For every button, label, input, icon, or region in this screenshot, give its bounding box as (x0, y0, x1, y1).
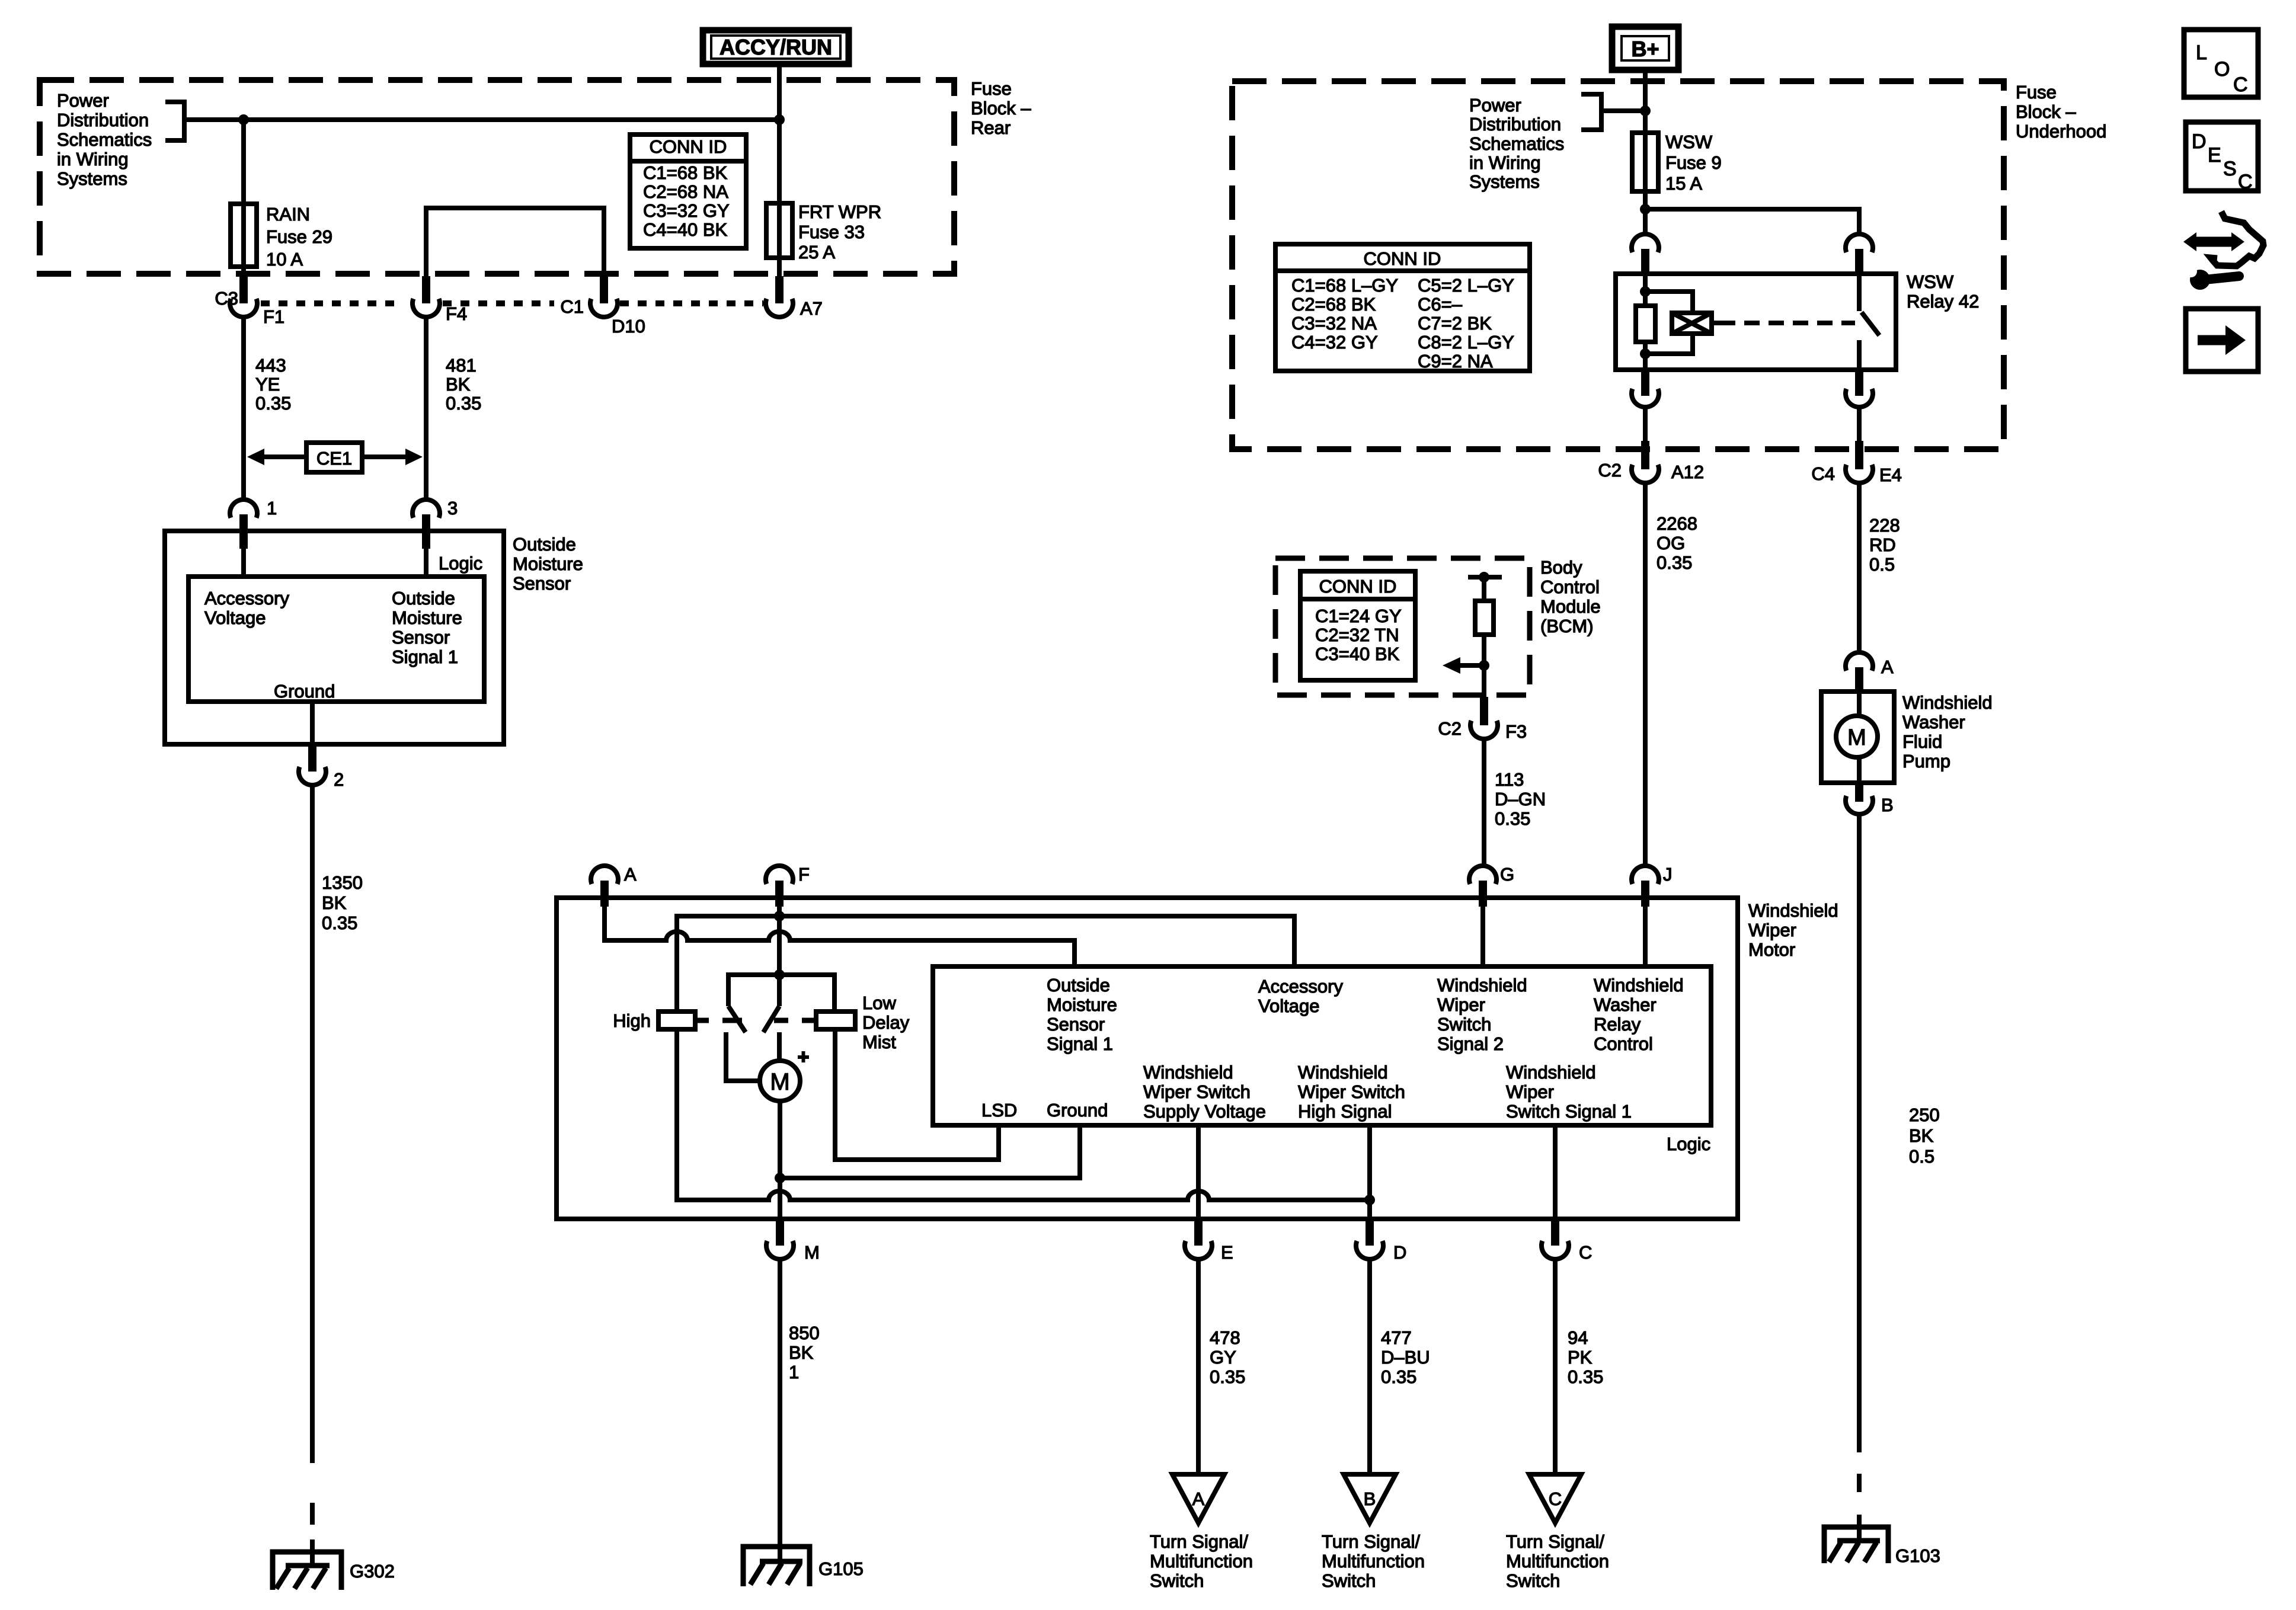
B+ box (1612, 27, 1678, 70)
label Power Distribution Schematics (left) (57, 90, 152, 189)
svg-text:WSW: WSW (1665, 132, 1713, 152)
wire motor output (778, 1101, 782, 1220)
connector A7 (766, 276, 823, 319)
svg-text:Sensor: Sensor (1047, 1014, 1105, 1035)
svg-text:A: A (1192, 1489, 1205, 1509)
svg-text:PK: PK (1568, 1347, 1593, 1368)
bracket left power distribution (165, 102, 184, 140)
svg-text:Distribution: Distribution (1469, 114, 1561, 135)
svg-text:C: C (2233, 73, 2248, 96)
label RAIN Fuse 29 10 A (266, 204, 332, 270)
svg-text:Turn Signal/: Turn Signal/ (1150, 1531, 1248, 1552)
label 2268 OG 0.35 (1657, 513, 1697, 573)
svg-text:Voltage: Voltage (1258, 996, 1319, 1016)
relay coil wire top (1643, 274, 1648, 306)
svg-text:D–BU: D–BU (1381, 1347, 1430, 1368)
svg-text:D–GN: D–GN (1495, 789, 1546, 809)
relay coil resistor (1636, 306, 1655, 342)
connector motor pin A (591, 864, 637, 907)
wire pump ground stub (1857, 1515, 1862, 1542)
svg-text:Signal 2: Signal 2 (1437, 1033, 1504, 1054)
svg-text:Windshield: Windshield (1748, 900, 1838, 921)
label Turn Signal Multifunction Switch C (1506, 1531, 1609, 1591)
label 481 BK 0.35 left (446, 355, 481, 414)
svg-text:C2=32 TN: C2=32 TN (1315, 625, 1399, 645)
svg-text:B: B (1364, 1489, 1376, 1509)
svg-text:0.5: 0.5 (1909, 1146, 1934, 1167)
svg-text:Multifunction: Multifunction (1322, 1551, 1425, 1571)
svg-text:Body: Body (1540, 557, 1582, 578)
svg-text:Underhood: Underhood (2016, 121, 2106, 142)
svg-text:C3: C3 (215, 288, 238, 309)
wire 1350 BK ground run (310, 786, 315, 1463)
svg-text:BK: BK (446, 374, 471, 395)
svg-text:Signal 1: Signal 1 (1047, 1033, 1113, 1054)
svg-text:C2=68 NA: C2=68 NA (643, 181, 728, 202)
wire supply voltage pin to E (1196, 1125, 1201, 1220)
svg-text:Moisture: Moisture (513, 553, 583, 574)
svg-text:Systems: Systems (1469, 171, 1540, 192)
connector motor pin M (766, 1220, 820, 1263)
label Body Control Module BCM (1540, 557, 1601, 636)
svg-text:Control: Control (1540, 577, 1600, 597)
svg-text:E: E (1221, 1242, 1233, 1263)
ground G302 (273, 1552, 395, 1590)
wire high brush to switch signal with hops (677, 1029, 1370, 1200)
svg-text:Distribution: Distribution (57, 110, 149, 130)
node F feed junction (774, 911, 785, 921)
svg-text:G: G (1500, 864, 1514, 885)
connector C2/A12 (1598, 441, 1704, 483)
wire jumper F4 to D10 (426, 208, 604, 277)
svg-text:Switch: Switch (1506, 1570, 1560, 1591)
wire pump ground gap dash (1857, 1474, 1862, 1492)
label 850 BK 1 (789, 1323, 820, 1382)
svg-text:C: C (1579, 1242, 1592, 1263)
connector pin 3 (412, 498, 458, 549)
wire main feed horizontal (184, 117, 779, 122)
svg-text:Module: Module (1540, 596, 1601, 617)
connector motor pin F (766, 864, 810, 907)
svg-text:0.35: 0.35 (1657, 552, 1692, 573)
BCM internal pullup wire (1468, 572, 1502, 601)
svg-text:C1=24 GY: C1=24 GY (1315, 606, 1402, 626)
logic box motor (933, 966, 1711, 1125)
wire G to switch signal 2 pin (1480, 900, 1485, 966)
wire coil to solenoid bottom (1645, 334, 1693, 354)
wire 481 BK to sensor (424, 318, 428, 500)
svg-text:Fuse 29: Fuse 29 (266, 226, 332, 247)
windshield washer fluid pump box (1821, 692, 1894, 784)
svg-text:Switch: Switch (1437, 1014, 1491, 1035)
CONN ID box underhood (1275, 244, 1530, 372)
connector pump A (1846, 652, 1894, 693)
svg-text:M: M (1847, 725, 1866, 750)
ground G103 (1824, 1527, 1940, 1566)
svg-text:0.35: 0.35 (255, 393, 291, 414)
svg-text:Schematics: Schematics (1469, 133, 1564, 154)
svg-text:Ground: Ground (274, 681, 335, 702)
label Windshield Washer Fluid Pump (1902, 692, 1993, 772)
wire accy run vertical (777, 64, 782, 277)
svg-text:Power: Power (57, 90, 109, 111)
off-page triangle A (1172, 1474, 1224, 1523)
svg-text:B: B (1881, 795, 1894, 815)
svg-text:Sensor: Sensor (392, 627, 450, 648)
node junction accy run (774, 114, 785, 125)
relay solenoid crossed box (1672, 313, 1720, 334)
connector pin 2 (299, 745, 344, 790)
node relay coil bottom junction (1640, 348, 1651, 359)
svg-text:1: 1 (789, 1362, 799, 1382)
svg-text:B+: B+ (1631, 37, 1659, 61)
svg-text:Delay: Delay (862, 1012, 910, 1033)
svg-text:Switch: Switch (1150, 1570, 1204, 1591)
connector motor pin D (1356, 1220, 1406, 1263)
svg-text:Pump: Pump (1902, 751, 1950, 772)
svg-text:in Wiring: in Wiring (57, 149, 129, 169)
fuse block underhood dashed box (1232, 81, 2004, 449)
connector C3/F1 (215, 276, 284, 327)
svg-text:Washer: Washer (1594, 994, 1657, 1015)
svg-text:ACCY/RUN: ACCY/RUN (720, 35, 832, 59)
label Outside Moisture Sensor Signal 1 logic (1047, 975, 1117, 1054)
svg-text:94: 94 (1568, 1327, 1588, 1348)
svg-text:Washer: Washer (1902, 712, 1965, 732)
wire 443 YE to sensor (241, 318, 246, 500)
svg-text:Systems: Systems (57, 168, 127, 189)
node junction rain fuse tap (238, 114, 249, 125)
svg-text:0.35: 0.35 (322, 913, 357, 933)
wire high signal pin to D (1367, 1125, 1372, 1220)
connector row dotted line (261, 300, 763, 306)
svg-text:Control: Control (1594, 1033, 1653, 1054)
svg-text:J: J (1663, 864, 1673, 885)
label Windshield Wiper Switch Signal 2 (1437, 975, 1527, 1054)
label WSW Fuse 9 15 A (1665, 132, 1722, 194)
connector F4 (412, 276, 467, 324)
connector motor pin J (1632, 864, 1673, 907)
svg-text:Logic: Logic (439, 553, 482, 574)
connector relay pin coil top (1632, 234, 1659, 275)
fuse RAIN Fuse 29 (231, 204, 257, 267)
svg-text:BK: BK (1909, 1125, 1934, 1146)
relay WSW Relay 42 box (1616, 274, 1896, 370)
svg-text:(BCM): (BCM) (1540, 616, 1594, 636)
off-page triangle B (1344, 1474, 1396, 1523)
svg-text:Logic: Logic (1667, 1134, 1710, 1154)
svg-text:Rear: Rear (971, 117, 1011, 138)
svg-text:Ground: Ground (1047, 1100, 1108, 1121)
svg-text:3: 3 (447, 498, 458, 518)
connector relay pin switch top (1846, 234, 1873, 275)
svg-text:C2: C2 (1598, 460, 1622, 481)
svg-text:Windshield: Windshield (1143, 1062, 1233, 1083)
svg-text:A7: A7 (800, 298, 823, 319)
svg-text:Outside: Outside (392, 588, 455, 609)
svg-text:G103: G103 (1895, 1545, 1940, 1566)
svg-text:LSD: LSD (981, 1100, 1017, 1121)
node relay coil top junction (1640, 286, 1651, 297)
svg-text:A: A (624, 864, 637, 885)
svg-text:C3=32 NA: C3=32 NA (1291, 313, 1377, 334)
svg-text:L: L (2196, 41, 2207, 64)
svg-text:Wiper: Wiper (1506, 1081, 1554, 1102)
svg-text:RD: RD (1869, 534, 1896, 555)
wire 94 PK run (1553, 1260, 1558, 1474)
wire sensor ground pin (310, 702, 315, 745)
svg-text:C5=2 L–GY: C5=2 L–GY (1418, 275, 1514, 296)
svg-text:OG: OG (1657, 533, 1685, 553)
svg-text:Relay 42: Relay 42 (1907, 291, 1979, 312)
svg-text:C1: C1 (560, 296, 584, 317)
label Turn Signal Multifunction Switch B (1322, 1531, 1425, 1591)
svg-text:Windshield: Windshield (1298, 1062, 1388, 1083)
svg-text:YE: YE (255, 374, 280, 395)
label 477 D-BU 0.35 (1381, 1327, 1430, 1387)
svg-text:F3: F3 (1505, 721, 1527, 742)
svg-text:M: M (770, 1069, 789, 1095)
svg-text:Windshield: Windshield (1594, 975, 1684, 996)
svg-text:C4: C4 (1811, 463, 1835, 484)
label Windshield Wiper Switch Supply Voltage (1143, 1062, 1266, 1122)
fuse WSW Fuse 9 (1632, 133, 1658, 191)
svg-text:WSW: WSW (1907, 271, 1954, 292)
wire 2268 OG run (1643, 484, 1648, 866)
svg-text:C3=40 BK: C3=40 BK (1315, 644, 1400, 664)
svg-text:Block –: Block – (2016, 101, 2076, 122)
node junction relay branch (1640, 204, 1651, 215)
svg-text:RAIN: RAIN (266, 204, 310, 225)
label Outside Moisture Sensor (513, 534, 583, 594)
wire 850 BK ground run (778, 1260, 782, 1561)
connector C2/F3 (1438, 697, 1527, 742)
svg-text:0.5: 0.5 (1869, 554, 1895, 575)
svg-text:D: D (2192, 130, 2207, 153)
svg-text:Moisture: Moisture (1047, 994, 1117, 1015)
wire relay coil out (1643, 407, 1648, 441)
windshield wiper motor box (557, 898, 1738, 1219)
svg-text:C: C (1549, 1489, 1562, 1509)
svg-text:481: 481 (446, 355, 477, 376)
label Windshield Wiper Switch Signal 1 (1506, 1062, 1632, 1122)
svg-text:25 A: 25 A (798, 242, 835, 263)
label Windshield Wiper Switch High Signal (1298, 1062, 1405, 1122)
svg-text:Windshield: Windshield (1437, 975, 1527, 996)
label 250 BK 0.5 (1909, 1105, 1940, 1167)
wire switch signal 1 pin to C (1553, 1125, 1558, 1220)
connector relay pin switch bottom (1846, 370, 1873, 407)
svg-text:C9=2 NA: C9=2 NA (1418, 351, 1493, 372)
svg-text:0.35: 0.35 (1495, 808, 1530, 829)
svg-text:Block –: Block – (971, 98, 1031, 119)
svg-text:E: E (2208, 144, 2221, 167)
wire 477 D-BU run (1367, 1260, 1372, 1474)
svg-text:Low: Low (862, 993, 896, 1013)
svg-text:Outside: Outside (513, 534, 576, 555)
wire pin3 into logic (424, 549, 428, 577)
svg-text:S: S (2223, 158, 2237, 180)
label Windshield Wiper Motor (1748, 900, 1838, 960)
svg-text:0.35: 0.35 (1210, 1366, 1245, 1387)
icon LOC box (2184, 30, 2258, 97)
connector pin 1 (230, 498, 277, 549)
wire A to moisture signal pin with hops (605, 900, 1075, 966)
BCM signal arrow (1443, 657, 1484, 674)
icon DESC box (2186, 122, 2258, 193)
wire pin1 into logic (241, 549, 246, 577)
svg-text:Switch Signal 1: Switch Signal 1 (1506, 1101, 1632, 1122)
svg-text:Sensor: Sensor (513, 573, 571, 594)
svg-text:C1=68 BK: C1=68 BK (643, 162, 728, 183)
node high signal junction (1364, 1195, 1375, 1205)
svg-text:High Signal: High Signal (1298, 1101, 1392, 1122)
svg-text:D: D (1393, 1242, 1406, 1263)
wire B+ vertical (1643, 70, 1648, 234)
svg-text:Voltage: Voltage (204, 607, 266, 628)
svg-text:Wiper: Wiper (1437, 994, 1485, 1015)
wire 113 D-GN run (1482, 740, 1486, 866)
svg-text:2: 2 (334, 769, 344, 790)
label 228 RD 0.5 (1869, 515, 1900, 575)
fuse block rear dashed box (40, 80, 954, 274)
svg-text:High: High (613, 1010, 651, 1031)
node BCM arrow junction (1479, 660, 1489, 671)
wire relay switch out (1857, 407, 1862, 441)
label FRT WPR Fuse 33 25 A (798, 201, 881, 263)
label 1350 BK 0.35 (322, 872, 363, 933)
svg-text:Fuse 9: Fuse 9 (1665, 152, 1722, 173)
svg-text:2268: 2268 (1657, 513, 1697, 534)
sensor inner logic box (188, 577, 484, 702)
icon arrow box (2186, 309, 2258, 372)
svg-text:0.35: 0.35 (1568, 1366, 1603, 1387)
svg-text:Schematics: Schematics (57, 129, 152, 150)
svg-text:F1: F1 (263, 306, 284, 327)
off-page triangle C (1529, 1474, 1581, 1523)
label Accessory Voltage logic (1258, 976, 1343, 1016)
svg-text:C2: C2 (1438, 718, 1462, 739)
label Power Distribution Schematics (right) (1469, 95, 1564, 192)
svg-text:C4=32 GY: C4=32 GY (1291, 332, 1378, 353)
svg-text:FRT WPR: FRT WPR (798, 201, 881, 222)
fuse FRT WPR Fuse 33 (766, 203, 792, 258)
label 94 PK 0.35 (1568, 1327, 1603, 1387)
relay coil wire bottom (1643, 342, 1648, 370)
connector motor pin E (1185, 1220, 1233, 1263)
svg-text:1350: 1350 (322, 872, 363, 893)
svg-text:BK: BK (789, 1342, 814, 1363)
svg-text:C3=32 GY: C3=32 GY (643, 200, 730, 221)
svg-text:G302: G302 (350, 1561, 395, 1582)
wire rain fuse drop (241, 120, 246, 277)
svg-text:443: 443 (255, 355, 286, 376)
CONN ID box rear (630, 135, 746, 248)
svg-text:Wiper: Wiper (1748, 920, 1796, 940)
outside moisture sensor outer box (165, 531, 504, 744)
label Fuse Block Underhood (2016, 82, 2106, 142)
svg-text:BK: BK (322, 892, 347, 913)
connector C1/D10 (560, 276, 645, 337)
svg-text:477: 477 (1381, 1327, 1412, 1348)
wire accessory voltage feed from F (777, 900, 782, 975)
svg-text:1: 1 (267, 498, 277, 518)
CE1 reference box with arrows (247, 443, 423, 472)
label WSW Relay 42 (1907, 271, 1979, 312)
wire J to washer relay control pin (1643, 900, 1648, 966)
svg-text:CONN ID: CONN ID (650, 136, 727, 157)
svg-text:Wiper Switch: Wiper Switch (1298, 1081, 1405, 1102)
svg-text:in Wiring: in Wiring (1469, 152, 1541, 173)
svg-text:Accessory: Accessory (1258, 976, 1343, 997)
svg-text:C6=–: C6=– (1418, 294, 1463, 315)
svg-text:0.35: 0.35 (1381, 1366, 1416, 1387)
svg-text:D10: D10 (612, 316, 645, 337)
connector motor pin C (1542, 1220, 1592, 1263)
svg-text:C1=68 L–GY: C1=68 L–GY (1291, 275, 1398, 296)
svg-text:C: C (2238, 171, 2253, 193)
BCM internal wire to output (1482, 635, 1486, 697)
svg-text:Mist: Mist (862, 1032, 896, 1052)
svg-text:O: O (2214, 58, 2230, 81)
svg-text:CONN ID: CONN ID (1319, 576, 1397, 597)
svg-text:Multifunction: Multifunction (1150, 1551, 1253, 1571)
label 443 YE 0.35 (255, 355, 291, 414)
svg-text:Accessory: Accessory (204, 588, 289, 609)
svg-text:F: F (798, 864, 810, 885)
svg-text:Relay: Relay (1594, 1014, 1641, 1035)
wire LSD path from mist resistor (835, 1029, 999, 1160)
svg-text:15 A: 15 A (1665, 173, 1702, 194)
wire branch to relay switch (1645, 209, 1859, 234)
wire 478 GY run (1196, 1260, 1201, 1474)
ground G105 (743, 1547, 864, 1586)
relay switch contact and blade (1859, 274, 1879, 370)
svg-text:C4=40 BK: C4=40 BK (643, 219, 728, 240)
svg-text:C8=2 L–GY: C8=2 L–GY (1418, 332, 1514, 353)
wire ground gap dash (310, 1503, 315, 1525)
node motor ground junction (775, 1173, 785, 1183)
label 478 GY 0.35 (1210, 1327, 1245, 1387)
svg-text:C2=68 BK: C2=68 BK (1291, 294, 1376, 315)
motor M symbol (726, 1032, 809, 1101)
svg-text:Fluid: Fluid (1902, 731, 1942, 752)
svg-text:Switch: Switch (1322, 1570, 1376, 1591)
svg-text:CONN ID: CONN ID (1364, 248, 1441, 269)
svg-text:C7=2 BK: C7=2 BK (1418, 313, 1492, 334)
svg-text:F4: F4 (446, 303, 467, 324)
svg-text:228: 228 (1869, 515, 1900, 536)
wire coil to solenoid top (1645, 292, 1693, 312)
svg-text:G105: G105 (818, 1558, 864, 1579)
relay actuation dashed link (1720, 321, 1855, 325)
wire 250 BK run (1857, 815, 1862, 1452)
connector C4/E4 (1811, 441, 1902, 485)
svg-text:Power: Power (1469, 95, 1521, 116)
svg-text:E4: E4 (1879, 465, 1902, 485)
svg-text:113: 113 (1495, 769, 1524, 790)
svg-text:A12: A12 (1671, 462, 1704, 482)
BCM dashed box (1275, 558, 1530, 695)
svg-text:Fuse: Fuse (2016, 82, 2057, 103)
connector pump B (1846, 783, 1894, 815)
svg-text:Turn Signal/: Turn Signal/ (1322, 1531, 1420, 1552)
svg-text:M: M (804, 1242, 820, 1263)
svg-text:CE1: CE1 (316, 448, 352, 469)
label 113 D-GN 0.35 (1495, 769, 1546, 829)
svg-text:Fuse 33: Fuse 33 (798, 222, 865, 242)
svg-text:478: 478 (1210, 1327, 1240, 1348)
